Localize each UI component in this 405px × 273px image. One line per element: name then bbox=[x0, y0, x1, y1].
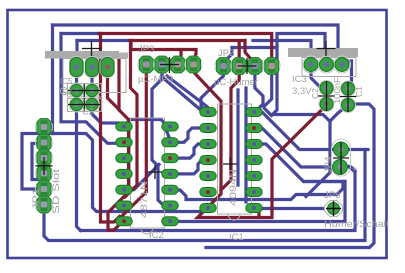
silk outline C3 bbox=[68, 84, 102, 98]
wire red JP3 pad4 big loop to C2 bbox=[194, 66, 328, 218]
wire via line pad7R to JP6 bbox=[258, 207, 327, 210]
IC5 body bbox=[45, 51, 119, 59]
svg-text:SD Slot: SD Slot bbox=[51, 169, 62, 214]
wire IC2 pad5L diagonal bbox=[124, 165, 159, 190]
svg-text:C2: C2 bbox=[83, 107, 94, 117]
wire IC2-IC1 links bbox=[170, 128, 205, 142]
origin cross JP1 bbox=[36, 157, 53, 175]
wire IC2 pad1 over to IC2 pad2R bbox=[126, 120, 171, 141]
wire red stub right of IC1 bbox=[257, 206, 260, 218]
svg-text:IC5: IC5 bbox=[60, 77, 73, 86]
wire top bus y33 left bbox=[61, 32, 99, 35]
origin cross IC1 bbox=[223, 157, 237, 171]
svg-text:Humer/Schalt: Humer/Schalt bbox=[324, 219, 389, 230]
connector JP1 bbox=[36, 119, 53, 214]
svg-text:µC-Humer: µC-Humer bbox=[214, 77, 258, 88]
wire top bus y40 right bbox=[253, 41, 311, 59]
wire second diagonal to IC1 bbox=[167, 76, 207, 107]
wire red top y33 bbox=[99, 34, 272, 59]
svg-text:IC3: IC3 bbox=[292, 74, 307, 85]
wire C3 bottom to busC bbox=[77, 105, 81, 231]
wire busD long JP1 to x365 bbox=[44, 150, 365, 241]
wire JP1 inner bracket pad2-pad4 bbox=[32, 144, 44, 180]
origin cross JP2 bbox=[238, 58, 257, 74]
IC1 body bbox=[218, 104, 252, 214]
wire busE bbox=[174, 182, 343, 200]
via JP6 bbox=[325, 201, 343, 217]
wire JP3 pad2 diagonal to IC1 pad1L bbox=[162, 71, 208, 112]
wire JP2 pad1 into IC1 bbox=[201, 71, 223, 113]
wire busE branch up to C1 bbox=[306, 108, 345, 197]
IC2 body bbox=[131, 118, 165, 228]
svg-text:JP3: JP3 bbox=[138, 44, 154, 55]
svg-text:JP1: JP1 bbox=[31, 188, 42, 210]
wire JP2 pad3 down to IC1 pad1R bbox=[255, 72, 263, 110]
wire IC3 pad3 to C1 bbox=[344, 61, 352, 88]
wire C3 column bbox=[75, 67, 78, 105]
wire red JP3 branch bbox=[131, 41, 196, 59]
IC3 body bbox=[288, 48, 358, 57]
origin cross C1 bbox=[340, 82, 357, 113]
wire top bus y40 left bbox=[77, 39, 130, 42]
capacitors C3 C5 pads bbox=[69, 83, 100, 112]
connector JP4 pads bbox=[332, 139, 351, 176]
capacitors C2 C1 pads bbox=[319, 81, 356, 113]
wire busF C1 bottom wrap bbox=[206, 104, 374, 248]
wire busB IC2 pad7R to wrapA bbox=[170, 182, 345, 222]
svg-text:JP2: JP2 bbox=[218, 48, 234, 59]
svg-text:JP6: JP6 bbox=[324, 190, 340, 201]
wire red JP2 pad2 into IC1 bbox=[221, 66, 239, 190]
wire top bus y25 bbox=[53, 25, 343, 62]
svg-text:+: + bbox=[352, 164, 358, 175]
regulator IC3 pads bbox=[303, 56, 351, 73]
wire x61 down across to IC2 pad2 bbox=[61, 34, 124, 144]
svg-text:IC2: IC2 bbox=[149, 230, 164, 241]
wire JP4 top line from IC1 pad1R bbox=[254, 112, 368, 150]
svg-text:C1: C1 bbox=[354, 86, 364, 97]
origin cross C3 bbox=[68, 84, 101, 97]
origin cross C5 bbox=[68, 98, 101, 111]
wire IC1 inner verticals bbox=[236, 90, 239, 185]
wire JP4 bottom line from IC1 pad2R bbox=[254, 128, 333, 167]
svg-text:IC1: IC1 bbox=[229, 232, 244, 243]
svg-text:µC-MP3: µC-MP3 bbox=[138, 74, 173, 85]
origin cross JP4 bbox=[333, 142, 349, 174]
IC2 pads bbox=[116, 122, 179, 226]
wire red top y40 bbox=[130, 39, 245, 42]
wire JP3 pad2 into IC2 zone bbox=[152, 71, 166, 208]
svg-text:5V: 5V bbox=[62, 88, 72, 97]
origin cross IC5 bbox=[82, 41, 101, 56]
wire top bus y33 right bbox=[277, 34, 325, 59]
svg-text:C2: C2 bbox=[310, 88, 320, 99]
wire red JP2 stubs bbox=[238, 42, 241, 58]
connector JP3 bbox=[138, 56, 202, 73]
wire red IC5 pad3 down bbox=[108, 70, 120, 110]
wire red x119 down nested corner to IC2 pad7L bbox=[108, 57, 129, 230]
wire JP1 bracket + busA long net bbox=[22, 134, 208, 212]
wire red x100 long down to IC2 pad7L bbox=[101, 34, 120, 223]
wire busC long to JP4 bbox=[81, 167, 356, 231]
wire C5 column to IC2 pad1 bbox=[92, 67, 124, 127]
regulator IC5 pads bbox=[70, 57, 115, 78]
wire JP2 blue y47 bbox=[227, 48, 232, 60]
silk outline C5 bbox=[68, 99, 102, 112]
silk marker C3 bbox=[61, 88, 68, 95]
wire d144 diagonal IC1 pad3R to wrapA bbox=[254, 144, 345, 182]
wire red x131-137 down bbox=[125, 42, 137, 197]
origin cross JP3 bbox=[160, 57, 179, 73]
svg-text:100nF: 100nF bbox=[332, 77, 342, 104]
origin cross C2 bbox=[318, 81, 335, 111]
origin cross IC2 bbox=[148, 165, 162, 179]
wire red JP3 pad1 down to IC2 pad7L bbox=[122, 70, 146, 216]
connector JP2 bbox=[215, 58, 280, 75]
svg-text:4094N: 4094N bbox=[228, 169, 239, 206]
svg-text:JP4: JP4 bbox=[323, 157, 334, 173]
wire IC3 pad1 to C2 bbox=[311, 70, 324, 88]
svg-text:4871N: 4871N bbox=[139, 181, 150, 218]
wire IC5 pad1 down bbox=[75, 41, 78, 61]
origin cross IC3 bbox=[317, 41, 336, 56]
wire JP2 pad4 down across to C1 branch bbox=[264, 72, 330, 122]
wire JP4 bottom stub right bbox=[347, 167, 355, 171]
wire left vertical x52 down bbox=[51, 25, 54, 134]
IC1 pads bbox=[200, 108, 263, 213]
